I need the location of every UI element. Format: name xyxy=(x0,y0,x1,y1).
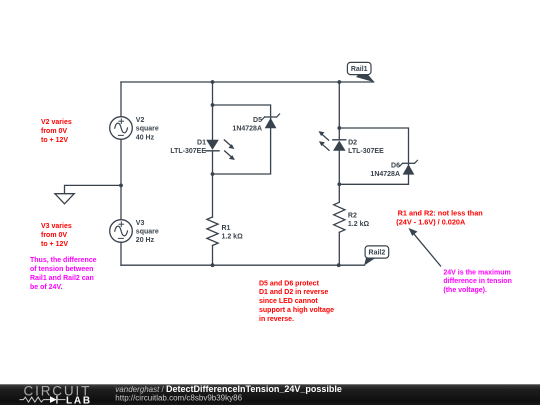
node junction D6 box top xyxy=(337,126,341,130)
svg-text:V2: V2 xyxy=(136,117,145,124)
svg-text:to + 12V: to + 12V xyxy=(41,137,68,144)
svg-text:D6: D6 xyxy=(391,162,400,169)
wire ground stub xyxy=(65,185,122,193)
resistor R2 xyxy=(334,202,345,232)
label D1 xyxy=(170,139,206,155)
node junction ground xyxy=(119,184,123,188)
svg-text:V2 varies: V2 varies xyxy=(41,119,72,126)
svg-text:to + 12V: to + 12V xyxy=(41,241,68,248)
wire middle branch bottom xyxy=(212,246,214,266)
svg-text:V3 varies: V3 varies xyxy=(41,223,72,230)
svg-text:square: square xyxy=(136,229,159,236)
svg-text:since LED cannot: since LED cannot xyxy=(259,298,318,305)
annotation V3 varies xyxy=(41,223,72,248)
voltage source V2 xyxy=(110,117,133,140)
svg-text:LAB: LAB xyxy=(66,395,92,405)
zener D6 xyxy=(400,160,418,174)
LED D1 xyxy=(206,140,235,160)
wire left branch lower xyxy=(120,242,122,265)
annotation Thus difference xyxy=(30,257,97,291)
logo resistor zigzag xyxy=(20,397,47,402)
svg-text:LTL-307EE: LTL-307EE xyxy=(348,148,384,155)
wire middle branch upper xyxy=(212,82,214,140)
flag Rail1 xyxy=(347,62,374,82)
LED D2 xyxy=(319,131,346,151)
annotation 24V maximum xyxy=(443,269,511,294)
svg-text:R1 and R2: not less than: R1 and R2: not less than xyxy=(398,208,483,217)
annotation V2 varies xyxy=(41,119,72,144)
node junction D5 box top xyxy=(211,103,215,107)
svg-text:D5 and D6 protect: D5 and D6 protect xyxy=(259,280,320,287)
flag Rail2 xyxy=(364,246,389,266)
svg-text:LTL-307EE: LTL-307EE xyxy=(170,148,206,155)
wire bottom rail xyxy=(121,264,365,266)
svg-text:Thus, the difference: Thus, the difference xyxy=(30,257,97,264)
annotation R1 R2 not less xyxy=(396,208,482,226)
svg-text:square: square xyxy=(136,126,159,133)
zener D5 xyxy=(262,114,280,128)
wire D5 loop xyxy=(213,105,271,174)
svg-text:be of 24V.: be of 24V. xyxy=(30,284,62,291)
logo diode xyxy=(47,396,66,403)
wire right branch upper xyxy=(338,82,340,140)
svg-text:R2: R2 xyxy=(348,213,357,220)
label D2 xyxy=(348,139,384,155)
svg-text:D5: D5 xyxy=(253,117,262,124)
footer bar xyxy=(0,384,540,405)
svg-text:difference in tension: difference in tension xyxy=(443,278,511,285)
wire right branch bottom xyxy=(338,232,340,265)
svg-text:Rail1: Rail1 xyxy=(351,66,368,73)
label D5 xyxy=(232,117,262,133)
svg-text:R1: R1 xyxy=(222,225,231,232)
wire top rail xyxy=(121,81,374,83)
svg-text:Rail1 and Rail2 can: Rail1 and Rail2 can xyxy=(30,275,94,282)
svg-text:Rail2: Rail2 xyxy=(369,250,386,257)
node junction D5 box bottom xyxy=(211,172,215,176)
svg-text:24V is the maximum: 24V is the maximum xyxy=(443,269,510,276)
node junction D6 box bottom xyxy=(337,182,341,186)
label R1 xyxy=(222,225,244,241)
svg-text:D2: D2 xyxy=(348,139,357,146)
node junction top right xyxy=(337,80,341,84)
wire D6 loop xyxy=(339,128,408,184)
svg-text:1N4728A: 1N4728A xyxy=(370,171,400,178)
svg-text:in reverse.: in reverse. xyxy=(259,316,294,323)
svg-text:20 Hz: 20 Hz xyxy=(136,237,155,244)
svg-text:(24V - 1.6V) / 0.020A: (24V - 1.6V) / 0.020A xyxy=(396,218,466,227)
node junction bottom middle xyxy=(211,263,215,267)
svg-text:from 0V: from 0V xyxy=(41,128,67,135)
wire middle branch lower xyxy=(212,151,214,217)
label V2 xyxy=(136,117,159,141)
wire left branch middle xyxy=(120,139,122,219)
label V3 xyxy=(136,220,159,244)
node junction top middle xyxy=(211,80,215,84)
label R2 xyxy=(348,213,370,229)
svg-text:support a high voltage: support a high voltage xyxy=(259,307,334,314)
voltage source V3 xyxy=(110,220,133,243)
svg-text:40 Hz: 40 Hz xyxy=(136,134,155,141)
svg-text:D1: D1 xyxy=(197,139,206,146)
svg-text:V3: V3 xyxy=(136,220,145,227)
resistor R1 xyxy=(207,217,218,246)
svg-text:D1 and D2 in reverse: D1 and D2 in reverse xyxy=(259,289,328,296)
node junction bottom right xyxy=(337,263,341,267)
annotation arrow xyxy=(409,228,441,266)
svg-text:1N4728A: 1N4728A xyxy=(232,125,262,132)
svg-text:of tension between: of tension between xyxy=(30,266,93,273)
ground xyxy=(55,194,74,204)
svg-text:http://circuitlab.com/c8sbv9b3: http://circuitlab.com/c8sbv9b39ky86 xyxy=(115,394,242,403)
wire right branch middle xyxy=(338,151,340,202)
svg-text:from 0V: from 0V xyxy=(41,232,67,239)
label D6 xyxy=(370,162,400,178)
svg-text:vanderghast / DetectDifference: vanderghast / DetectDifferenceInTension_… xyxy=(115,384,342,394)
svg-text:(the voltage).: (the voltage). xyxy=(443,287,487,294)
svg-text:1.2 kΩ: 1.2 kΩ xyxy=(222,234,244,241)
annotation D5 D6 protect xyxy=(259,280,334,323)
svg-text:1.2 kΩ: 1.2 kΩ xyxy=(348,221,370,228)
wire left branch upper xyxy=(120,82,122,117)
